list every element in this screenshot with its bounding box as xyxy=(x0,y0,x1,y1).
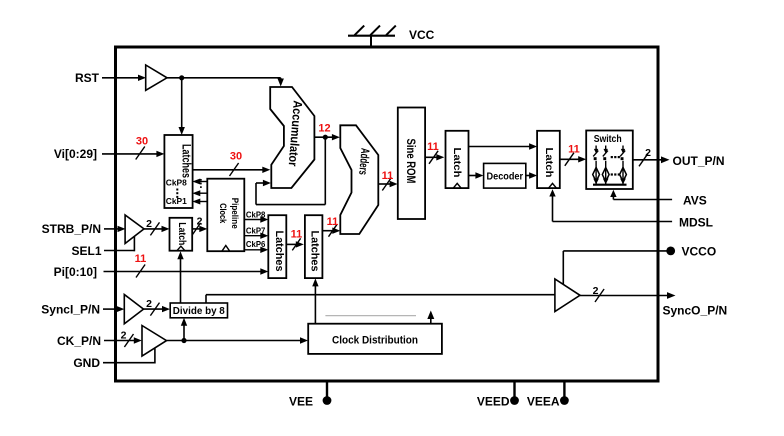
wire clock middle to latches U1 xyxy=(192,190,207,196)
buffer SyncI xyxy=(124,295,143,324)
svg-text:VCCO: VCCO xyxy=(682,245,717,259)
wire clock distribution up arrow xyxy=(427,311,434,324)
wire latch U7 to decoder xyxy=(469,172,484,178)
block Adders xyxy=(340,125,378,234)
svg-text:2: 2 xyxy=(121,330,127,342)
svg-text:12: 12 xyxy=(318,123,330,135)
switch cell 2 xyxy=(602,146,609,185)
svg-text:VEEA: VEEA xyxy=(527,395,560,409)
svg-text:Latches: Latches xyxy=(179,144,191,178)
bus 2 latch U2 to pipeline clock xyxy=(192,223,207,235)
faint separator line above clock distribution xyxy=(325,315,416,317)
svg-text:Clock: Clock xyxy=(217,203,228,224)
svg-text:30: 30 xyxy=(136,136,148,148)
svg-text:VEED: VEED xyxy=(477,395,510,409)
bus 11 sine ROM to latch U7 xyxy=(425,151,444,164)
block Accumulator xyxy=(270,87,314,188)
svg-text:CK_P/N: CK_P/N xyxy=(57,334,101,348)
svg-text:Adders: Adders xyxy=(356,147,372,175)
svg-text:CkP1: CkP1 xyxy=(166,196,187,206)
svg-text:Sine ROM: Sine ROM xyxy=(404,139,416,184)
svg-text:2: 2 xyxy=(593,285,599,297)
wire MDSL to latch U8 clock xyxy=(549,189,672,221)
switch common rail xyxy=(593,184,627,186)
svg-text:MDSL: MDSL xyxy=(679,215,713,229)
junction on CK line xyxy=(181,338,186,343)
svg-text:2: 2 xyxy=(146,218,152,230)
svg-text:VEE: VEE xyxy=(289,395,313,409)
wire STRB input xyxy=(104,226,126,232)
svg-text:2: 2 xyxy=(197,216,203,228)
buffer CK xyxy=(142,326,167,357)
junction on RST line xyxy=(179,75,184,80)
svg-text:Latch: Latch xyxy=(543,148,555,178)
wire CkP8 to latches U5 xyxy=(244,216,268,222)
wire divide-by-8 to latch U2 clock xyxy=(177,251,183,303)
junction accumulator output xyxy=(323,135,328,140)
svg-text:OUT_P/N: OUT_P/N xyxy=(673,154,725,168)
bus 11 latches U5 to latches U6 xyxy=(286,238,304,250)
block Pipeline Clock xyxy=(207,179,244,252)
wire Pi input bus xyxy=(104,265,269,278)
svg-text:2: 2 xyxy=(146,298,152,310)
dotted clock continuation mark xyxy=(200,179,202,190)
block Latch U2 (strobe latch) xyxy=(170,218,193,251)
buffer RST xyxy=(146,65,167,90)
svg-text:CkP8: CkP8 xyxy=(166,178,187,188)
buffer STRB xyxy=(125,215,144,244)
bus 2 SyncO output xyxy=(580,289,676,302)
wire RST input xyxy=(102,75,146,81)
wire accumulator feedback loop xyxy=(256,137,325,204)
svg-text:2: 2 xyxy=(645,147,651,159)
wire SEL1 xyxy=(104,236,134,251)
wire CK junction up to divide-by-8 xyxy=(181,318,187,341)
bus 11 adders to sine ROM xyxy=(378,178,397,191)
bus 30 latches U1 to accumulator xyxy=(193,163,271,176)
svg-text:Latch: Latch xyxy=(451,148,463,178)
svg-text:11: 11 xyxy=(427,141,439,153)
pin VEE xyxy=(289,381,331,409)
svg-text:Pipeline: Pipeline xyxy=(229,198,240,229)
switch cell 3 xyxy=(620,146,627,185)
buffer SyncO xyxy=(555,279,580,312)
block Latch U7 xyxy=(446,131,469,188)
pin VCCO xyxy=(563,247,675,285)
svg-text:11: 11 xyxy=(568,144,580,156)
dots between CkP8 and CkP1 xyxy=(176,189,178,198)
pin VEEA xyxy=(527,381,569,409)
wire SyncI buffer to divide-by-8 xyxy=(144,303,171,316)
svg-text:Switch: Switch xyxy=(594,134,622,145)
svg-text:AVS: AVS xyxy=(683,193,707,207)
svg-text:11: 11 xyxy=(291,229,303,241)
block Switch xyxy=(586,131,633,190)
wire clock distribution to pipeline latches xyxy=(312,278,318,323)
wire divide-by-8 to SyncO buffer xyxy=(206,295,556,303)
bus 11 latch U8 to switch xyxy=(560,153,586,166)
svg-text:VCC: VCC xyxy=(409,28,435,42)
chip boundary box xyxy=(116,47,659,381)
wire STRB buffer to latch xyxy=(144,222,170,235)
wire CkP6 to latches U5 xyxy=(244,247,268,253)
svg-text:30: 30 xyxy=(230,151,242,163)
wire decoder to latch U8 xyxy=(526,172,537,178)
wire clock CkP1 to latches U1 xyxy=(192,199,207,205)
wire CK input xyxy=(104,334,142,347)
block Divide by 8 xyxy=(170,303,227,318)
wire latch U7 to latch U8 (MSB path) xyxy=(469,143,538,149)
svg-text:Latches: Latches xyxy=(308,231,320,272)
block Latch U8 xyxy=(537,131,560,188)
bus 2 switch to OUT_P/N xyxy=(633,153,670,166)
svg-text:Divide by 8: Divide by 8 xyxy=(173,306,225,317)
block Latches U5 (pipeline latches) xyxy=(268,215,286,278)
svg-text:SyncO_P/N: SyncO_P/N xyxy=(663,303,728,317)
block Clock Distribution xyxy=(308,324,442,354)
svg-text:Pi[0:10]: Pi[0:10] xyxy=(54,265,97,279)
svg-text:11: 11 xyxy=(382,170,394,182)
power symbol VCC xyxy=(348,26,396,46)
block Latches U1 (input data latches) xyxy=(164,135,192,208)
wire RST to accumulator xyxy=(167,78,284,87)
block Latches U6 (pipeline latches) xyxy=(305,215,323,278)
wire SyncI input xyxy=(103,306,124,312)
svg-text:Decoder: Decoder xyxy=(487,171,524,182)
wire GND to CK buffer xyxy=(103,349,155,364)
svg-text:Clock Distribution: Clock Distribution xyxy=(332,334,418,346)
svg-text:SEL1: SEL1 xyxy=(71,244,101,258)
switch cell 1 xyxy=(593,146,600,185)
wire AVS to switch xyxy=(610,190,672,200)
wire clock CkP8 to latches U1 xyxy=(192,179,207,185)
block Sine ROM xyxy=(398,108,425,220)
svg-text:11: 11 xyxy=(327,216,339,228)
pin VEED xyxy=(477,381,519,409)
bus 12 accumulator to adders xyxy=(314,134,340,140)
svg-text:Latches: Latches xyxy=(273,231,285,272)
wire CK buffer to clock distribution xyxy=(167,337,309,343)
switch cell dots xyxy=(611,156,620,176)
block Decoder xyxy=(484,163,526,188)
svg-text:RST: RST xyxy=(75,71,100,85)
svg-text:11: 11 xyxy=(135,253,147,265)
svg-text:SyncI_P/N: SyncI_P/N xyxy=(41,303,100,317)
bus 11 latches U6 to adders xyxy=(322,225,340,237)
svg-text:Vi[0:29]: Vi[0:29] xyxy=(54,147,97,161)
wire CkP7 to latches U5 xyxy=(244,233,268,239)
svg-text:Latch: Latch xyxy=(176,222,187,245)
svg-text:STRB_P/N: STRB_P/N xyxy=(42,222,101,236)
wire RST junction down to input latches xyxy=(179,78,185,135)
wire Vi input bus xyxy=(102,147,164,160)
svg-text:GND: GND xyxy=(73,356,100,370)
